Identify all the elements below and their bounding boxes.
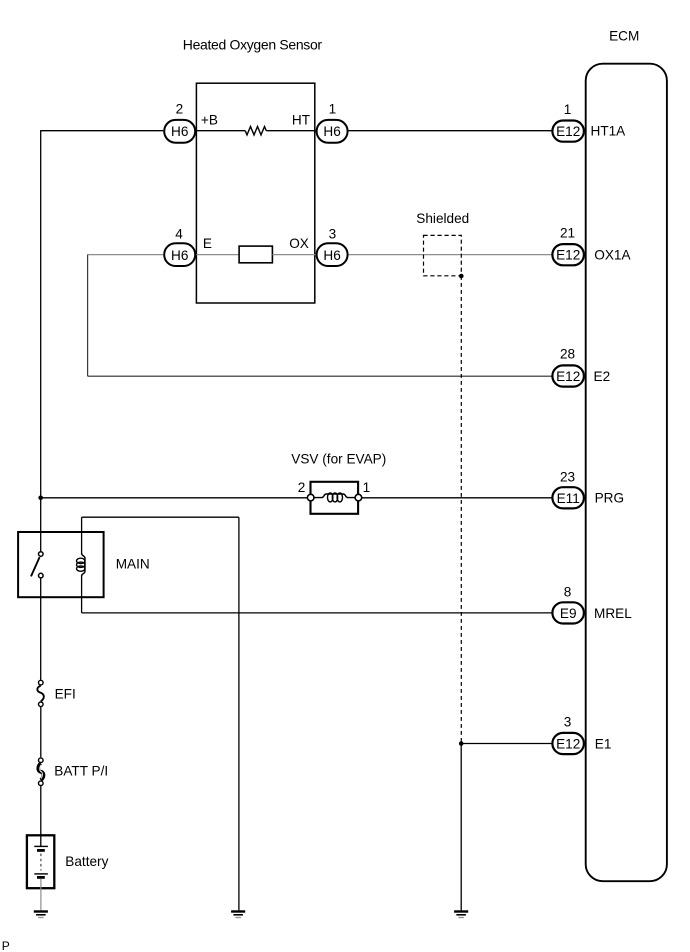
svg-text:4: 4 xyxy=(175,226,183,241)
connector E9 MREL xyxy=(552,602,584,623)
connector H6 pin4 xyxy=(164,243,195,266)
ground shield drain xyxy=(454,912,468,918)
svg-text:HT: HT xyxy=(292,113,310,128)
wire OX1A row right (OX to ECM) xyxy=(349,254,552,256)
svg-text:P: P xyxy=(2,939,10,952)
connector H6 pin3 xyxy=(317,243,348,266)
svg-text:3: 3 xyxy=(564,715,572,730)
wire BATT fuse to battery xyxy=(40,786,42,846)
svg-text:H6: H6 xyxy=(323,248,340,263)
connector E12 E2 xyxy=(552,365,584,386)
svg-text:1: 1 xyxy=(363,480,371,495)
svg-text:MAIN: MAIN xyxy=(116,557,150,572)
relay switch contact top xyxy=(39,552,44,557)
resistor heater zigzag xyxy=(245,127,266,135)
wire heater lead left xyxy=(196,130,245,132)
wire left vertical upper (B+ feed) xyxy=(40,130,42,551)
svg-text:E9: E9 xyxy=(560,606,577,621)
svg-text:E12: E12 xyxy=(556,369,580,384)
wire vertical E-to-E2 xyxy=(87,255,89,377)
wire MREL row xyxy=(82,612,552,614)
ground battery xyxy=(34,912,48,918)
wire E row left xyxy=(88,254,164,256)
svg-text:E2: E2 xyxy=(594,369,611,384)
VSV coil xyxy=(314,493,354,502)
shield dashed box xyxy=(424,235,462,275)
connector E12 HT1A xyxy=(552,121,584,142)
wire HT1A row left xyxy=(41,130,164,132)
wire E2 row xyxy=(88,375,552,377)
svg-text:1: 1 xyxy=(329,101,337,116)
sensor box (Heated Oxygen Sensor outline) xyxy=(196,83,314,303)
connector H6 pin1 xyxy=(317,120,348,143)
junction dot PRG branch xyxy=(38,496,43,501)
svg-text:H6: H6 xyxy=(171,124,188,139)
svg-text:Heated Oxygen Sensor: Heated Oxygen Sensor xyxy=(183,37,323,53)
svg-text:2: 2 xyxy=(176,101,184,116)
svg-text:23: 23 xyxy=(560,469,575,484)
svg-text:3: 3 xyxy=(329,226,337,241)
wire HT1A row right (HT to ECM) xyxy=(349,130,552,132)
shield junction dot xyxy=(459,274,464,279)
ground relay xyxy=(231,912,245,918)
ECM box xyxy=(586,64,667,882)
shield drain dashed wire xyxy=(460,276,462,744)
junction dot E1 branch xyxy=(459,741,464,746)
svg-text:H6: H6 xyxy=(323,124,340,139)
wire E1 row xyxy=(461,743,551,745)
svg-text:8: 8 xyxy=(564,584,572,599)
connector H6 pin2 xyxy=(164,120,195,143)
VSV pin circle 1 xyxy=(355,494,362,501)
relay switch contact bottom xyxy=(39,573,44,578)
svg-text:OX: OX xyxy=(289,236,309,251)
svg-text:2: 2 xyxy=(298,480,306,495)
sensing element rectangle xyxy=(239,246,272,263)
svg-text:E1: E1 xyxy=(595,736,612,751)
svg-text:E12: E12 xyxy=(556,737,580,752)
VSV box xyxy=(311,482,359,514)
relay MAIN box xyxy=(18,532,104,597)
svg-text:PRG: PRG xyxy=(595,491,624,506)
svg-text:BATT P/I: BATT P/I xyxy=(54,764,108,779)
wire PRG row left xyxy=(41,497,311,499)
svg-text:E: E xyxy=(203,236,212,251)
svg-text:+B: +B xyxy=(201,113,218,128)
wire shield drain solid to ground xyxy=(460,744,462,911)
wire OX row internal left xyxy=(196,254,239,256)
svg-text:EFI: EFI xyxy=(55,686,76,701)
svg-text:Battery: Battery xyxy=(65,854,108,869)
svg-text:HT1A: HT1A xyxy=(591,123,627,138)
fusible link BATT P/I xyxy=(38,758,43,786)
connector E12 E1 xyxy=(552,733,584,754)
svg-text:ECM: ECM xyxy=(609,28,639,43)
wire EFI to BATT fuse xyxy=(40,707,42,757)
relay switch blade xyxy=(31,557,40,576)
relay coil xyxy=(77,553,86,576)
wire heater lead right xyxy=(266,130,315,132)
svg-text:H6: H6 xyxy=(171,248,188,263)
battery cells xyxy=(34,846,48,877)
svg-text:28: 28 xyxy=(560,346,575,361)
wire relay coil top link xyxy=(82,516,239,518)
wire relay coil vertical xyxy=(81,517,83,613)
svg-text:E12: E12 xyxy=(556,124,580,139)
svg-text:21: 21 xyxy=(560,225,575,240)
svg-text:E12: E12 xyxy=(556,248,580,263)
svg-text:E11: E11 xyxy=(557,491,580,506)
wire battery to ground xyxy=(40,879,42,911)
svg-text:1: 1 xyxy=(564,102,572,117)
battery box xyxy=(27,835,54,888)
VSV pin circle 2 xyxy=(307,494,314,501)
svg-text:OX1A: OX1A xyxy=(594,247,631,262)
svg-text:Shielded: Shielded xyxy=(416,211,469,226)
svg-text:MREL: MREL xyxy=(594,606,632,621)
svg-text:VSV (for EVAP): VSV (for EVAP) xyxy=(291,451,386,466)
wire relay ground vertical xyxy=(238,517,240,910)
wire OX row internal right xyxy=(272,254,315,256)
wire PRG row right xyxy=(358,497,551,499)
fuse EFI xyxy=(37,680,43,706)
wire left vertical lower (relay to EFI) xyxy=(40,578,42,680)
connector E12 OX1A xyxy=(552,244,584,265)
connector E11 PRG xyxy=(552,487,584,508)
